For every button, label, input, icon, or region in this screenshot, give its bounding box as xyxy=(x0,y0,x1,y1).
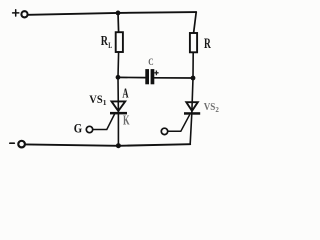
svg-text:C: C xyxy=(148,58,153,68)
svg-text:VS: VS xyxy=(89,94,102,106)
svg-text:L: L xyxy=(108,41,112,50)
svg-text:VS: VS xyxy=(204,102,216,113)
svg-text:R: R xyxy=(204,36,211,52)
svg-text:2: 2 xyxy=(215,106,219,114)
svg-text:A: A xyxy=(122,85,128,100)
svg-text:G: G xyxy=(74,122,83,136)
svg-text:K: K xyxy=(123,112,130,127)
svg-text:R: R xyxy=(101,33,108,48)
svg-text:1: 1 xyxy=(103,98,107,107)
